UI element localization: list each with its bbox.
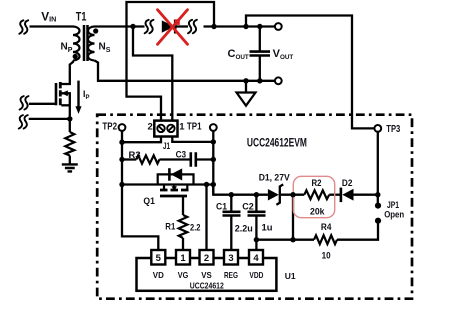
wire primary drain — [61, 61, 73, 85]
svg-text:R2: R2 — [312, 178, 322, 189]
IC pin box 4 — [249, 250, 263, 265]
svg-text:2: 2 — [204, 253, 209, 264]
capacitor C3 plates — [191, 152, 196, 167]
svg-text:REG: REG — [224, 270, 238, 280]
wire COUT top — [259, 27, 261, 52]
svg-text:IP: IP — [83, 89, 89, 101]
transformer T1 primary winding Np — [73, 27, 80, 61]
wire J1 pin1 to TP1 rail — [172, 136, 213, 142]
capacitor C2 plates — [248, 212, 266, 216]
svg-text:J1: J1 — [163, 141, 170, 151]
svg-text:4: 4 — [253, 253, 259, 264]
IC pin box 2 — [200, 250, 214, 265]
connector J1 screw circles — [157, 125, 164, 132]
svg-text:2.2u: 2.2u — [235, 224, 253, 235]
wire VIN input — [30, 25, 74, 27]
svg-text:VDD: VDD — [249, 270, 263, 280]
red X over diode — [158, 10, 188, 45]
wire J1 pin2 to TP2 rail — [122, 136, 161, 143]
svg-text:UCC24612EVM: UCC24612EVM — [247, 137, 307, 149]
svg-text:R4: R4 — [321, 222, 332, 233]
transformer T1 secondary winding Ns — [88, 27, 95, 61]
wire R4 rail — [256, 239, 314, 241]
transistor Q1 channel bars and gate bar — [160, 189, 189, 192]
wire TP1 stub — [212, 131, 214, 142]
terminal VOUT- — [275, 77, 282, 84]
wire primary gate lead — [29, 103, 56, 105]
wire COUT bottom — [259, 56, 261, 80]
svg-text:2: 2 — [148, 121, 153, 132]
svg-text:Open: Open — [384, 209, 404, 220]
svg-text:C2: C2 — [242, 201, 254, 212]
diode Q1 body diode — [158, 174, 194, 184]
svg-text:U1: U1 — [285, 271, 296, 281]
svg-text:D2: D2 — [342, 178, 353, 189]
diode D2 triangle — [342, 189, 353, 201]
diode D1 triangle — [268, 189, 279, 201]
svg-text:C1: C1 — [216, 201, 228, 212]
squiggle break marks — [19, 20, 28, 34]
diode crossed-out SR diode (solid triangle + bar) — [162, 20, 174, 32]
diode D2 cathode bar — [340, 188, 343, 203]
wire right vertical TP1 to gnd rail — [212, 142, 214, 195]
open terminals — [119, 23, 382, 132]
resistor R3 zigzag — [136, 155, 159, 163]
EVM dash-dot border box — [97, 115, 412, 299]
transformer T1 core — [84, 25, 88, 61]
diode D1 zener bar — [276, 184, 283, 204]
red highlight box around R2 — [293, 176, 334, 217]
svg-text:10: 10 — [322, 251, 331, 262]
svg-text:2.2: 2.2 — [190, 222, 201, 233]
svg-text:R1: R1 — [165, 222, 176, 233]
wire C3 right to vertical — [197, 158, 214, 160]
svg-text:VG: VG — [178, 270, 189, 280]
svg-text:1: 1 — [180, 253, 186, 264]
wire diode bypass + J1 pin2 feed — [127, 2, 215, 122]
svg-text:20k: 20k — [310, 206, 325, 217]
terminal TP2 — [119, 124, 126, 131]
wire Q1 gate to R1 — [182, 196, 184, 215]
wire D2 anode to JP1 vertical — [353, 194, 378, 196]
wire TP2 stub — [121, 131, 123, 142]
wire anode node to J1 pin1 — [133, 27, 172, 122]
transistor primary MOSFET body arrow — [61, 90, 68, 96]
wire primary return — [29, 118, 70, 120]
terminal VOUT+ — [275, 23, 282, 30]
svg-text:T1: T1 — [76, 10, 87, 24]
wire VS pin lead — [205, 185, 207, 251]
svg-text:VIN: VIN — [41, 9, 56, 23]
wire C1 stub and REG lead — [230, 195, 232, 212]
svg-text:NS: NS — [99, 42, 111, 55]
wire TP3 down to JP1 pin1 — [377, 132, 379, 203]
svg-text:C3: C3 — [176, 150, 187, 161]
wire R2 to D2 — [329, 194, 340, 196]
svg-text:TP1: TP1 — [187, 121, 202, 132]
svg-text:5: 5 — [156, 253, 162, 264]
IC pin box 5 — [151, 250, 165, 265]
svg-text:R3: R3 — [129, 150, 141, 161]
wire R3 row — [122, 158, 136, 160]
wire diode cathode to VOUT+ terminal — [176, 25, 188, 27]
svg-text:1u: 1u — [262, 222, 273, 233]
wire Ns top to diode anode node — [95, 25, 145, 27]
svg-text:D1, 27V: D1, 27V — [259, 172, 291, 183]
jumper JP1 pins — [375, 203, 381, 209]
IC pin box 1 — [176, 250, 190, 265]
wire D1 junction down to R4 rail — [292, 195, 294, 240]
IC U1 body — [137, 258, 277, 291]
svg-text:UCC24612: UCC24612 — [190, 280, 224, 290]
svg-text:1: 1 — [179, 121, 185, 132]
wire output ground stub — [245, 81, 247, 93]
wire TP3 feed from VOUT+ rail — [246, 16, 374, 129]
svg-text:TP2: TP2 — [102, 121, 117, 132]
wire sense resistor top/bottom — [69, 119, 71, 132]
wire left VD vertical to pin5 — [122, 142, 158, 250]
Ip current arrow — [77, 81, 79, 108]
resistor R4 zigzag — [314, 235, 337, 244]
wire C2 stub and VDD lead — [255, 195, 257, 212]
capacitor COUT plates — [250, 52, 271, 56]
terminal TP1 — [210, 124, 217, 131]
wire primary source lead — [61, 93, 70, 119]
svg-text:VD: VD — [153, 270, 164, 280]
wire Q1 rail — [122, 183, 213, 185]
resistor R2 zigzag — [304, 190, 329, 199]
wire R1 to VG pin — [182, 238, 184, 251]
transistor primary MOSFET gate bar — [55, 83, 58, 105]
svg-text:VOUT: VOUT — [273, 48, 294, 61]
connector J1 body — [154, 121, 177, 137]
transistor primary MOSFET channel bars — [59, 82, 62, 105]
svg-text:TP3: TP3 — [386, 124, 400, 135]
svg-text:COUT: COUT — [228, 48, 249, 61]
wire D1 cathode to R2 — [281, 194, 304, 196]
svg-text:Q1: Q1 — [143, 196, 155, 207]
svg-text:3: 3 — [228, 253, 233, 264]
ground output (triangle) — [237, 93, 256, 106]
ground primary (bars) — [62, 164, 78, 171]
svg-text:VS: VS — [201, 270, 212, 280]
resistor R1 zigzag — [179, 215, 188, 238]
wire secondary bottom rail to VOUT- terminal — [95, 61, 276, 81]
svg-text:NP: NP — [61, 42, 73, 55]
transistor Q1 body arrow (down) — [172, 186, 177, 191]
terminal TP3 — [374, 125, 381, 132]
transistor Q1 drain/source stubs — [164, 185, 187, 191]
node dots — [67, 24, 381, 243]
IC pin box 3 — [224, 250, 238, 265]
LABELS — [41, 9, 293, 100]
wire gnd rail to D1 row — [213, 185, 268, 195]
diode Q1 body diode triangle — [171, 168, 182, 180]
resistor primary sense (unlabeled) — [65, 132, 74, 156]
capacitor C1 plates — [223, 212, 241, 216]
